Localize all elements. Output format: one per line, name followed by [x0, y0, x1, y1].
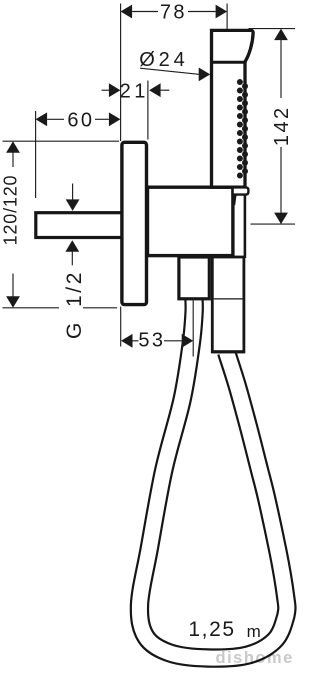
dim 53 extension line left (wall, below plate) — [120, 307, 122, 347]
dim 142 extension line top — [249, 28, 296, 30]
handle grip spiral dots — [237, 79, 248, 179]
svg-text:120/120: 120/120 — [1, 175, 21, 246]
hose outlet fitting (piece A) — [179, 257, 209, 299]
head/handle joint — [212, 61, 246, 64]
svg-text:G 1/2: G 1/2 — [63, 270, 86, 339]
svg-text:60: 60 — [67, 110, 94, 132]
dim Ø24 label + leader — [139, 49, 210, 82]
svg-text:21: 21 — [120, 80, 149, 102]
svg-text:dishome: dishome — [216, 649, 294, 667]
svg-text:Ø24: Ø24 — [139, 49, 188, 71]
svg-text:142: 142 — [271, 106, 293, 147]
holder block — [148, 187, 233, 255]
dim 120/120 — [1, 141, 21, 308]
dim 78 extension line right (head axis) — [226, 4, 228, 30]
label G 1/2 with arrows at arm — [63, 184, 86, 340]
svg-text:m: m — [247, 622, 264, 641]
wall plate — [122, 142, 147, 304]
dim 142 — [271, 29, 293, 225]
dim 142 extension line bottom — [251, 223, 296, 225]
label 1,25 m (hose length) — [188, 618, 263, 641]
handshower (head + handle) — [212, 30, 254, 187]
dim 53 extension line right (hose axis) — [192, 301, 194, 357]
svg-text:78: 78 — [160, 2, 187, 24]
dim 60 — [36, 110, 121, 132]
dim 120/120 extension line top (plate top) — [3, 140, 120, 142]
hose loop — [139, 299, 286, 658]
dim 21 — [102, 80, 170, 102]
hose nut flange at handle bottom — [233, 187, 249, 205]
dim 53 — [121, 329, 193, 351]
dim 60 extension line left (arm end) — [35, 111, 37, 198]
dim 21 extension line (plate front) — [147, 81, 149, 140]
svg-text:53: 53 — [138, 329, 165, 351]
hose upper section from handle nut — [233, 194, 245, 258]
dim 78 — [121, 2, 228, 24]
dim 78 extension line left (wall) — [120, 4, 122, 142]
hose connector sleeve (piece B) — [211, 257, 245, 352]
pipe arm (G 1/2 connection) — [36, 213, 124, 238]
svg-text:1,25: 1,25 — [188, 618, 235, 641]
dim 120/120 extension line bottom (plate bottom) — [3, 307, 118, 309]
